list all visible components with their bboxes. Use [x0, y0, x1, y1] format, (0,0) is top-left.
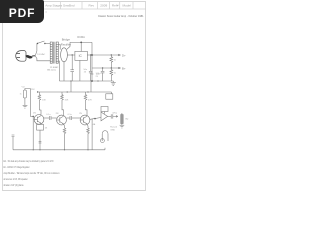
svg-text:25: 25	[96, 76, 99, 78]
junction	[91, 80, 93, 82]
amplifier labels	[20, 74, 129, 131]
svg-text:D+: D+	[122, 53, 126, 57]
B+ rail	[92, 67, 121, 69]
junction	[97, 80, 98, 81]
base wire T1	[30, 115, 34, 117]
bias box U2	[106, 94, 113, 99]
page frame	[3, 2, 146, 191]
coupling capacitor C5	[66, 116, 80, 120]
svg-text:8Ω: 8Ω	[125, 119, 128, 121]
svg-text:25: 25	[84, 72, 87, 74]
wire bridge + up to DC rail	[67, 42, 92, 49]
feed drop wires	[70, 81, 72, 92]
svg-text:4A: 4A	[93, 123, 96, 126]
load resistor R7	[121, 113, 124, 125]
ground GND3	[120, 125, 125, 128]
svg-text:2009: 2009	[100, 3, 107, 7]
PDF badge	[0, 0, 44, 23]
svg-text:Model: Model	[123, 3, 132, 7]
input top wire	[25, 89, 30, 117]
bias drop wire	[91, 119, 93, 150]
svg-text:IC: IC	[79, 54, 83, 58]
capacitor C1	[70, 55, 74, 81]
svg-text:B+: B+	[122, 66, 126, 70]
capacitor C3	[101, 68, 105, 81]
resistor R2 (vertical)	[110, 68, 113, 81]
collector resistor R10	[61, 92, 64, 115]
junction	[70, 80, 71, 81]
svg-text:47K: 47K	[88, 99, 92, 101]
svg-text:Rectifier: Rectifier	[61, 43, 71, 47]
wire neutral	[35, 56, 50, 61]
svg-text:0.1u: 0.1u	[68, 114, 73, 116]
svg-text:Vol: Vol	[22, 87, 26, 89]
output capacitor C9	[108, 114, 118, 118]
junction	[32, 116, 34, 118]
svg-text:1k: 1k	[114, 73, 117, 75]
svg-text:In: In	[20, 94, 23, 96]
collector resistor R9	[38, 92, 41, 115]
IC output wire	[87, 54, 120, 56]
svg-text:Bridge: Bridge	[62, 38, 71, 42]
transformer T1	[50, 42, 58, 64]
svg-text:2N: 2N	[79, 113, 82, 115]
wire hot	[35, 44, 37, 56]
switch SW1	[37, 41, 50, 44]
title block separators	[44, 2, 146, 9]
speaker SP1	[101, 131, 109, 143]
svg-text:470u: 470u	[112, 112, 118, 114]
svg-text:22K: 22K	[31, 89, 35, 91]
collector resistor R11	[84, 92, 87, 115]
junction	[91, 54, 93, 56]
ground rail of supply	[59, 80, 113, 82]
emitter box E1	[37, 124, 44, 149]
junction	[90, 54, 91, 55]
junction	[80, 42, 82, 44]
ground rail bottom	[13, 149, 105, 151]
junction	[64, 149, 65, 150]
tick on feed	[91, 73, 94, 75]
coupling capacitor C4	[44, 116, 57, 120]
power amp triangle U4	[101, 112, 108, 121]
wire rail to IC	[80, 42, 82, 51]
svg-text:Blk wires: Blk wires	[47, 69, 57, 72]
svg-text:2N: 2N	[33, 112, 36, 114]
svg-text:Amp Stages: Amp Stages	[45, 3, 62, 7]
svg-text:1K: 1K	[45, 128, 48, 130]
svg-text:50u: 50u	[84, 69, 88, 71]
svg-text:shown 2 W (4) plans: shown 2 W (4) plans	[4, 183, 24, 187]
svg-text:12.6VAC: 12.6VAC	[50, 66, 59, 69]
svg-text:GND: GND	[110, 129, 115, 131]
input resistor R8	[23, 90, 26, 98]
svg-text:DCMA: DCMA	[77, 36, 85, 39]
junction	[111, 67, 112, 68]
signal rail	[38, 91, 112, 93]
junction	[37, 91, 38, 92]
svg-text:120VAC: 120VAC	[37, 53, 45, 56]
svg-text:SnwBnd: SnwBnd	[63, 3, 75, 7]
svg-text:Rev: Rev	[89, 3, 95, 7]
transistor Q1	[34, 115, 44, 125]
wire bridge out to IC	[67, 54, 75, 56]
junction	[87, 91, 88, 92]
svg-text:EC - 120VAC CT Voltage Regulat: EC - 120VAC CT Voltage Regulator	[4, 165, 30, 169]
ground GND2	[23, 98, 28, 108]
svg-text:10K: 10K	[65, 99, 69, 101]
svg-text:all sources 12 W, 4W speaker: all sources 12 W, 4W speaker	[4, 177, 28, 181]
svg-text:1k: 1k	[114, 60, 117, 62]
title block row	[45, 3, 131, 7]
emitter resistor R13	[87, 124, 90, 150]
junction	[39, 149, 40, 150]
ground GND1	[111, 81, 116, 86]
transistor Q2	[57, 115, 67, 125]
bias drop wire	[32, 116, 34, 149]
emitter resistor R12	[63, 124, 66, 150]
svg-text:=: =	[45, 10, 47, 14]
T3 output wire	[90, 118, 101, 120]
wire bridge - down	[63, 61, 65, 81]
svg-text:Classic Snow Guitar Amp - Octo: Classic Snow Guitar Amp - October 1981	[98, 14, 144, 18]
svg-text:Raised: Raised	[110, 126, 118, 128]
junction	[94, 118, 96, 120]
junction	[33, 149, 34, 150]
svg-text:10K: 10K	[42, 99, 46, 101]
arrow B+ out	[118, 67, 121, 69]
rail end drop	[111, 92, 113, 94]
caption notes	[4, 159, 60, 187]
svg-text:Amp Builder - Tall wire helps: Amp Builder - Tall wire helps combo 75 V…	[4, 171, 60, 175]
right rail end	[104, 148, 106, 150]
svg-text:0.1u: 0.1u	[46, 114, 51, 116]
transistor Q3	[80, 115, 90, 125]
line cord	[26, 56, 35, 58]
AC plug P1	[16, 51, 26, 62]
junction	[102, 67, 103, 68]
capacitor C2	[89, 55, 93, 81]
junction	[111, 54, 112, 55]
svg-text:EC - 9V dual amp chassis may b: EC - 9V dual amp chassis may be divided …	[4, 159, 54, 163]
cap marks on bias drop	[39, 142, 42, 143]
svg-text:Ref#: Ref#	[112, 3, 119, 7]
arrow D+ out	[118, 54, 121, 56]
junction	[67, 91, 68, 92]
bridge rectifier BR1	[61, 48, 68, 62]
IC ground pin wire	[79, 60, 81, 81]
driver box U3	[101, 107, 108, 112]
resistor R1 (vertical)	[110, 55, 113, 68]
secondary wires	[58, 45, 60, 50]
power supply labels	[37, 36, 126, 78]
DC feed down to amp	[91, 42, 93, 81]
regulator IC U1	[75, 51, 87, 60]
svg-text:2N: 2N	[56, 113, 59, 115]
left riser	[12, 135, 15, 150]
junction	[87, 149, 88, 150]
junction	[72, 54, 73, 55]
